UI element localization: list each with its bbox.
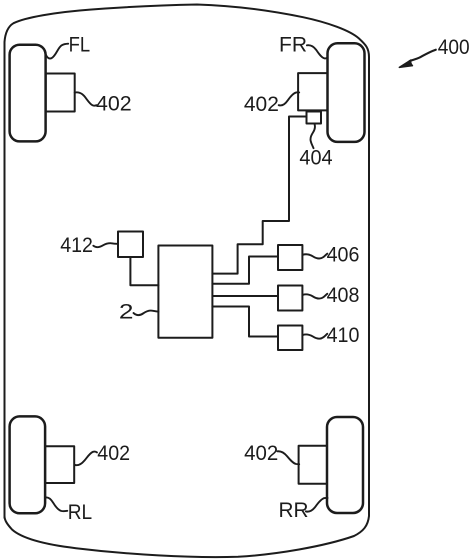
svg-text:404: 404 <box>299 147 332 170</box>
svg-text:408: 408 <box>327 284 360 307</box>
svg-text:RR: RR <box>279 499 309 522</box>
svg-text:400: 400 <box>438 36 470 59</box>
svg-text:410: 410 <box>327 324 360 347</box>
svg-text:FR: FR <box>279 33 307 56</box>
svg-text:RL: RL <box>68 501 92 524</box>
svg-text:FL: FL <box>69 33 91 56</box>
svg-text:412: 412 <box>60 234 93 257</box>
svg-text:2: 2 <box>119 301 134 324</box>
svg-text:406: 406 <box>327 244 360 267</box>
svg-text:402: 402 <box>96 93 132 116</box>
svg-text:402: 402 <box>244 442 278 465</box>
svg-text:402: 402 <box>97 442 130 465</box>
svg-text:402: 402 <box>244 93 279 116</box>
